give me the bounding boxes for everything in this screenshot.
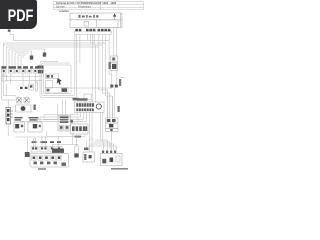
ECU box U1 [70, 13, 122, 27]
left stack: X-boxes [17, 98, 30, 104]
U3 label [75, 136, 82, 138]
left edge long verticals [2, 43, 16, 100]
component E1 under badge [8, 30, 11, 32]
bottom big box [30, 149, 69, 168]
enclosure (relay plate) with ring wires [40, 34, 77, 97]
ECU internal parts [79, 15, 99, 18]
vertical label V1 [109, 62, 111, 69]
wires feeding bottom row [34, 133, 79, 147]
bottom big box label [38, 168, 46, 170]
M2 label and feed [84, 138, 92, 152]
title text [56, 1, 117, 13]
horizontal wire above bottom row [16, 136, 47, 138]
tiny label 22a [73, 98, 80, 101]
bottom left drop wire [25, 138, 30, 157]
wire bus line 4 [6, 46, 99, 48]
wires from enclosure bottom to left stack [2, 97, 27, 101]
relay output wires with pin marks [110, 71, 124, 88]
label cluster left of enclosure [38, 66, 44, 74]
bottom connector row cells [31, 147, 62, 153]
bottom middle component M2 [83, 152, 95, 162]
bottom right label [111, 168, 128, 170]
wires feeding bottom right block [88, 140, 117, 150]
left stack: box with circle [16, 105, 32, 112]
wires: long horizontal bus [3, 41, 109, 48]
fuse F1 [6, 108, 13, 125]
left connector row labels [2, 66, 39, 68]
sensor block U3 [71, 120, 89, 134]
wires dropping from left row [7, 73, 36, 96]
center control box [75, 102, 105, 113]
PDF badge [0, 0, 37, 29]
long horizontal wire y87 [60, 87, 112, 89]
bottom middle connector P5 [74, 136, 78, 158]
relay feed double wire [114, 27, 117, 56]
wires from bus right corners going down [93, 34, 113, 118]
svg-text:Schéma de MA / CITROEN/PEUGEOT: Schéma de MA / CITROEN/PEUGEOT 1993 - 19… [56, 1, 117, 5]
connector row under ECU [75, 29, 112, 34]
bottom right block [101, 151, 123, 166]
center box exit wires to left [20, 113, 92, 142]
title block table [54, 2, 144, 10]
left cluster boxes row2 [14, 122, 42, 132]
fuse wires [7, 100, 9, 136]
stub component S1 on ring wire [30, 51, 33, 60]
svg-text:schéma: schéma [59, 9, 69, 13]
small sensor left [29, 82, 38, 91]
EGR component center [58, 116, 71, 132]
small box node [84, 94, 92, 100]
EGR feed wires [44, 100, 66, 120]
wire bus line 1 [14, 40, 110, 42]
svg-text:Schéma: Schéma [56, 6, 65, 8]
stub component S2 on ring wire [43, 49, 46, 57]
left cluster labels row2 [15, 117, 39, 121]
svg-text:Périphérique: Périphérique [78, 5, 92, 8]
vertical label text [34, 105, 36, 111]
wire from top-left component [10, 32, 14, 41]
wire down from R2 [110, 132, 112, 151]
left connector row dots [3, 70, 43, 72]
wire bus line 2 [3, 42, 106, 44]
wire bus line 3 [3, 44, 102, 46]
enclosure internals [46, 74, 69, 93]
left connector row boxes [2, 69, 44, 73]
center box labels above [77, 98, 88, 100]
right column wires from center box [101, 88, 115, 143]
left corner ring wires [6, 47, 44, 66]
vertical label right [118, 106, 120, 112]
splice dots [20, 87, 27, 89]
vertical label V2 [119, 79, 121, 86]
small box under left row [2, 75, 7, 81]
diode symbol in ECU [113, 13, 117, 16]
bottom connector row labels [32, 141, 62, 143]
connector row stubs joining bus [80, 34, 109, 63]
horizontal wire mid-left [2, 77, 42, 81]
pin stub under diode [114, 17, 116, 20]
right component R2 [106, 118, 119, 132]
relay box K1 [111, 56, 118, 71]
